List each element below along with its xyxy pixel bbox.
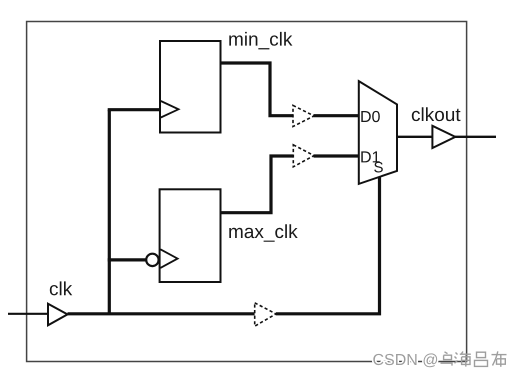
- mux U1 trapezoid: [359, 81, 397, 184]
- clk input buffer: [48, 304, 68, 326]
- outer boundary box: [27, 22, 467, 362]
- dashed buffer 1 (to D0): [293, 105, 314, 126]
- label max_clk: [229, 224, 297, 242]
- watermark glyph bu: [492, 351, 507, 366]
- wire clk trunk after buffer: [68, 312, 255, 315]
- watermark glyph lv: [475, 352, 488, 366]
- pin label D1: [361, 151, 379, 162]
- flip-flop FF1: [160, 41, 221, 133]
- FF1 clock triangle: [161, 101, 179, 118]
- wire dashed buffer 2 to mux D1: [314, 154, 360, 157]
- wire clock vertical distribution: [108, 110, 111, 314]
- wire mux output to buffer: [397, 136, 432, 138]
- FF2 inverting bubble: [146, 254, 158, 266]
- label clkout: [412, 107, 461, 121]
- wire FF2 output to dashed buffer 2: [220, 156, 293, 213]
- dashed buffer 3 (to S): [255, 303, 276, 326]
- wire clkout to right edge: [455, 136, 496, 138]
- wire FF1 output to dashed buffer 1: [220, 63, 293, 116]
- wire dashed buffer 1 to mux D0: [314, 114, 360, 117]
- pin label S: [374, 162, 383, 173]
- flip-flop FF2: [160, 189, 221, 282]
- wire to FF2 clock bubble: [108, 258, 147, 261]
- FF2 clock triangle: [160, 249, 177, 268]
- label clk: [50, 281, 72, 295]
- pin label D0: [361, 111, 380, 122]
- watermark glyph hai: [455, 352, 471, 367]
- wire dashed buffer 3 to mux select S: [276, 177, 380, 314]
- watermark glyph wu: [441, 352, 453, 366]
- dashed buffer 2 (to D1): [293, 145, 314, 167]
- clkout output buffer: [432, 126, 455, 148]
- wire clk input segment: [8, 313, 48, 315]
- label min_clk: [229, 32, 292, 50]
- watermark CSDN @: [373, 353, 437, 367]
- wire to FF1 clock: [108, 108, 160, 111]
